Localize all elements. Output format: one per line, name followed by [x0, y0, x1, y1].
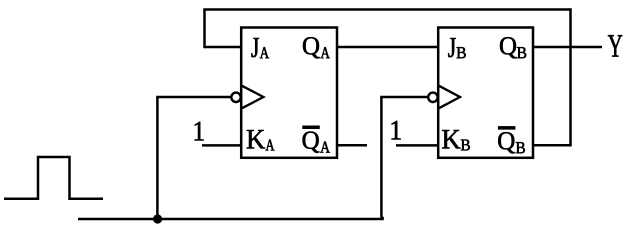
- label Qbar_B overbar: [498, 126, 515, 129]
- wire: clock A horizontal: [156, 96, 231, 99]
- wire: K_A logic-1 stub: [202, 144, 241, 147]
- label Q_B: [500, 37, 526, 58]
- label logic 1 at K_B: [392, 121, 401, 140]
- wire: clock B horizontal: [380, 96, 428, 99]
- wire: Qbar_A output stub: [337, 144, 367, 147]
- label Qbar_A: [303, 132, 330, 153]
- wire: J_A input stub: [205, 46, 242, 49]
- wire: clock B vertical: [380, 97, 383, 218]
- wire: feedback top rail: [203, 8, 570, 11]
- label logic 1 at K_A: [195, 122, 204, 141]
- wire: feedback left vertical: [203, 10, 206, 49]
- wire: Q_B output to Y: [533, 46, 602, 49]
- label output Y: [608, 35, 622, 56]
- wire: Qbar_B output to feedback: [533, 144, 572, 147]
- label J_B: [448, 38, 466, 58]
- clock inverter bubble (flip-flop A): [231, 93, 240, 102]
- wire: bottom clock rail: [78, 217, 383, 219]
- label Qbar_A overbar: [303, 126, 320, 129]
- clock edge triangle (flip-flop B): [439, 86, 460, 108]
- wire: feedback right vertical (from Qbar_B): [569, 8, 572, 145]
- flip-flop U1 (JK flip-flop A) box: [241, 28, 337, 158]
- clock inverter bubble (flip-flop B): [428, 93, 437, 102]
- label K_B: [442, 130, 470, 150]
- label Q_A: [303, 37, 330, 58]
- wire: clock A vertical: [156, 97, 159, 219]
- label K_A: [247, 130, 275, 150]
- label J_A: [251, 38, 269, 58]
- wire: Q_A output to J_B input: [337, 46, 438, 49]
- flip-flop U2 (JK flip-flop B) box: [438, 28, 533, 158]
- pulse waveform input symbol: [4, 157, 103, 199]
- label Qbar_B: [498, 132, 525, 153]
- clock edge triangle (flip-flop A): [242, 86, 263, 108]
- wire: K_B logic-1 stub: [396, 144, 438, 147]
- junction dot at clock node: [153, 214, 162, 223]
